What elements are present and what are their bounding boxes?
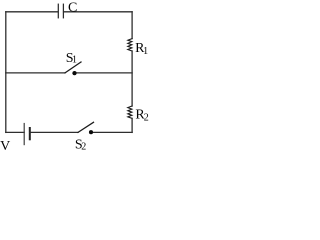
wire right vertical middle [131,51,133,106]
wire middle right segment [77,72,133,74]
svg-text:1: 1 [72,55,77,66]
svg-text:V: V [0,139,10,154]
switch S2 contact dot [89,130,93,134]
capacitor C plates [58,4,63,18]
wire top right segment [64,11,133,13]
battery V long plate [23,124,25,145]
wire left vertical [5,12,7,133]
svg-text:1: 1 [143,46,148,57]
resistor R1 zigzag [128,39,132,51]
wire bottom middle segment [30,131,78,133]
wire middle left segment [6,72,65,74]
svg-text:2: 2 [81,142,86,153]
battery V short plate [29,128,31,139]
svg-text:C: C [68,0,77,15]
switch S1 lever [65,62,81,73]
wire top left segment [6,11,58,13]
switch S2 lever [78,122,94,132]
resistor R2 zigzag [128,106,132,118]
switch S1 contact dot [72,71,76,75]
wire bottom right segment [93,131,132,133]
svg-text:2: 2 [144,113,149,124]
wire bottom left segment [6,131,24,133]
wire right vertical lower [131,118,133,132]
wire right vertical upper [131,12,133,39]
